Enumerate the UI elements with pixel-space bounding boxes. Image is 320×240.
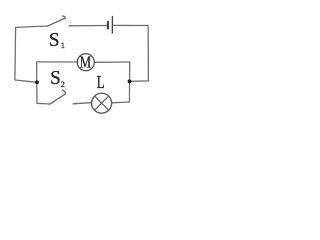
battery positive plate bbox=[111, 16, 113, 34]
wire S1 to battery bbox=[69, 25, 107, 27]
wire motor branch left bbox=[37, 61, 78, 63]
lamp circle bbox=[92, 93, 112, 113]
wire left vertical bbox=[14, 27, 17, 80]
motor circle bbox=[77, 54, 94, 71]
wire right horizontal to node B bbox=[130, 80, 149, 82]
wire battery to top-right corner bbox=[113, 24, 148, 26]
wire top-left horizontal bbox=[16, 26, 48, 27]
lamp cross bbox=[94, 96, 108, 110]
wire lamp to corner bbox=[112, 101, 130, 104]
battery negative plate bbox=[107, 21, 109, 29]
switch S2 bbox=[50, 90, 66, 104]
svg-text:L: L bbox=[97, 72, 105, 92]
svg-text:M: M bbox=[80, 53, 91, 72]
node A junction dot bbox=[35, 80, 39, 84]
wire S2 to lamp bbox=[73, 103, 92, 104]
wire right vertical bbox=[147, 25, 149, 81]
wire middle horizontal bbox=[15, 80, 37, 82]
wire motor to corner bbox=[94, 61, 130, 63]
wire bottom to S2 bbox=[37, 102, 50, 105]
svg-text:1: 1 bbox=[61, 40, 65, 50]
svg-text:S: S bbox=[49, 29, 60, 51]
wire inner right vertical bbox=[128, 62, 130, 103]
svg-text:S: S bbox=[50, 67, 61, 89]
svg-text:2: 2 bbox=[61, 79, 65, 89]
wire inner left vertical bbox=[36, 61, 38, 103]
node B junction dot bbox=[128, 80, 132, 84]
switch S1 bbox=[47, 16, 65, 26]
